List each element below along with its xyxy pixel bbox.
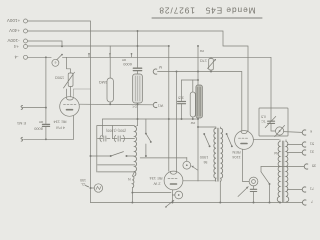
svg-text:+40V: +40V	[8, 28, 20, 33]
svg-text:cm: cm	[122, 58, 127, 62]
output transformer	[277, 142, 280, 203]
svg-text:1900: 1900	[200, 155, 208, 159]
grid condenser branch	[182, 79, 199, 81]
terminal +4	[24, 45, 28, 49]
svg-text:a: a	[165, 205, 167, 209]
primary switch	[204, 134, 209, 146]
speaker terminal 71	[287, 189, 302, 191]
cap values label	[106, 129, 126, 133]
wire pot to tube V1	[66, 87, 70, 97]
V3 anode line	[182, 180, 184, 182]
svg-text:CL: CL	[81, 182, 86, 186]
output switch	[260, 167, 262, 172]
svg-text:51: 51	[310, 142, 314, 147]
coil taps	[98, 165, 135, 172]
wire -4 filament line	[28, 56, 51, 58]
wire +4 to grid line	[28, 46, 169, 171]
svg-text:-100V: -100V	[6, 38, 19, 43]
wire lamp branch to potentiometer	[67, 57, 71, 73]
transformer label 1900	[200, 155, 208, 164]
filament bus stubs	[88, 54, 90, 57]
grid dashes V1	[64, 103, 77, 105]
V3 filament down	[171, 190, 173, 203]
ground bus	[91, 202, 303, 204]
svg-text:E M1: E M1	[17, 121, 26, 126]
svg-text:Mende E45 1927/28: Mende E45 1927/28	[158, 6, 255, 16]
phone terminal T2	[153, 102, 157, 107]
reaction switch	[145, 119, 147, 133]
terminal E (phono) upper	[21, 106, 23, 110]
svg-text:150Ω: 150Ω	[55, 76, 64, 80]
wave switch line	[91, 155, 135, 157]
title underline	[152, 17, 262, 19]
trimmer pot circle	[276, 127, 284, 135]
speaker terminal 7	[302, 200, 306, 205]
svg-text:8000: 8000	[33, 126, 42, 131]
grid feed V3 from line71	[176, 72, 178, 172]
svg-text:N: N	[128, 177, 131, 181]
svg-text:315: 315	[178, 96, 184, 100]
line 71.5 phones to V2 anode	[158, 72, 242, 132]
label E M	[17, 121, 26, 126]
svg-text:1104: 1104	[231, 155, 240, 160]
svg-text:150: 150	[80, 178, 86, 182]
tube V1 RE134	[60, 97, 80, 117]
detector box	[259, 108, 288, 136]
tube V1 label	[53, 120, 67, 131]
secondary switch	[227, 134, 232, 146]
label cw	[199, 49, 204, 53]
grid capacitor 315	[178, 102, 186, 104]
transformer bottom connections	[183, 181, 220, 203]
wire V1 grid stub up	[73, 89, 90, 97]
speaker terminal 0	[302, 130, 306, 135]
blocking capacitor 8000	[45, 57, 47, 139]
antenna coil lower section	[132, 176, 134, 188]
wire V1 filament down	[24, 116, 74, 139]
svg-text:e: e	[310, 130, 312, 135]
speaker terminal 51	[287, 144, 302, 146]
svg-text:56: 56	[204, 160, 208, 164]
svg-text:RE 134: RE 134	[149, 176, 163, 181]
rheostat 17ohm	[210, 57, 212, 58]
trimmer capacitor in box	[268, 121, 275, 123]
wire +40V	[28, 31, 248, 131]
tube V3 RE134	[164, 171, 183, 190]
jack J3	[172, 194, 174, 196]
svg-text:0,5: 0,5	[261, 115, 266, 119]
transformer top wire	[198, 127, 221, 129]
capacitor 6000 cm	[137, 31, 139, 67]
svg-text:71: 71	[310, 187, 314, 192]
audio transformer T	[214, 128, 216, 181]
svg-text:+100V: +100V	[6, 18, 20, 23]
variable capacitor 2	[112, 136, 134, 141]
svg-text:cm: cm	[39, 120, 44, 124]
speaker terminal 31	[287, 152, 302, 154]
wire +100V rail	[28, 21, 91, 203]
svg-text:2 W: 2 W	[153, 181, 160, 186]
potentiometer 150	[68, 73, 73, 87]
filament line continues	[62, 57, 271, 121]
svg-text:cw: cw	[190, 121, 195, 125]
title: Mende E45 1927/28 (rotated scan)	[158, 6, 255, 16]
V2 anode to output transformer	[253, 139, 279, 141]
terminal -100V	[24, 39, 28, 43]
junction nodes on +4 line	[197, 45, 199, 47]
anode bar V1	[67, 109, 73, 111]
svg-text:17Ω: 17Ω	[200, 58, 207, 62]
wire -100V drop	[28, 41, 62, 46]
detector blocking resistor (dark)	[196, 85, 203, 118]
tuning box	[102, 119, 104, 137]
svg-text:+4: +4	[13, 44, 19, 49]
anode line V1 to phones	[79, 103, 153, 106]
terminal E (phono) lower	[21, 137, 23, 141]
svg-text:TC: TC	[261, 119, 266, 123]
svg-text:31: 31	[310, 150, 314, 155]
svg-text:e: e	[54, 60, 56, 64]
wire y119	[103, 118, 199, 120]
anode resistor block	[137, 71, 139, 74]
jack feed	[140, 157, 187, 159]
variable capacitor 1	[98, 136, 111, 141]
terminal -4	[24, 55, 28, 59]
grid return line	[132, 192, 171, 194]
grid leak resistor	[190, 92, 195, 117]
svg-text:4 Pol: 4 Pol	[56, 125, 65, 130]
tube V2 REN	[235, 131, 254, 150]
phone jack J4	[249, 177, 258, 186]
svg-text:-4: -4	[14, 55, 19, 60]
svg-text:7: 7	[311, 200, 313, 205]
svg-text:35: 35	[312, 164, 316, 169]
svg-text:M: M	[159, 65, 162, 69]
switch/lamp in filament line	[52, 59, 59, 66]
svg-text:RE 134: RE 134	[53, 120, 67, 125]
speaker terminal 35	[261, 166, 304, 168]
svg-text:Nd: Nd	[274, 151, 278, 155]
terminal +100V	[24, 19, 28, 23]
svg-text:cw: cw	[199, 49, 204, 53]
antenna coil main	[135, 127, 137, 177]
jack J2	[186, 158, 188, 162]
svg-text:1MΩ: 1MΩ	[99, 80, 107, 85]
junction	[61, 45, 63, 47]
resistor 1M	[109, 46, 111, 78]
svg-text:REN: REN	[232, 150, 240, 155]
svg-text:W1: W1	[158, 104, 163, 108]
terminal +40V	[24, 29, 28, 33]
dial lamp	[91, 187, 95, 189]
phone terminal T1	[153, 69, 157, 74]
V2 filament down to jack	[243, 149, 250, 181]
svg-text:(500) (1000): (500) (1000)	[106, 129, 126, 133]
box to terminal	[284, 131, 303, 134]
